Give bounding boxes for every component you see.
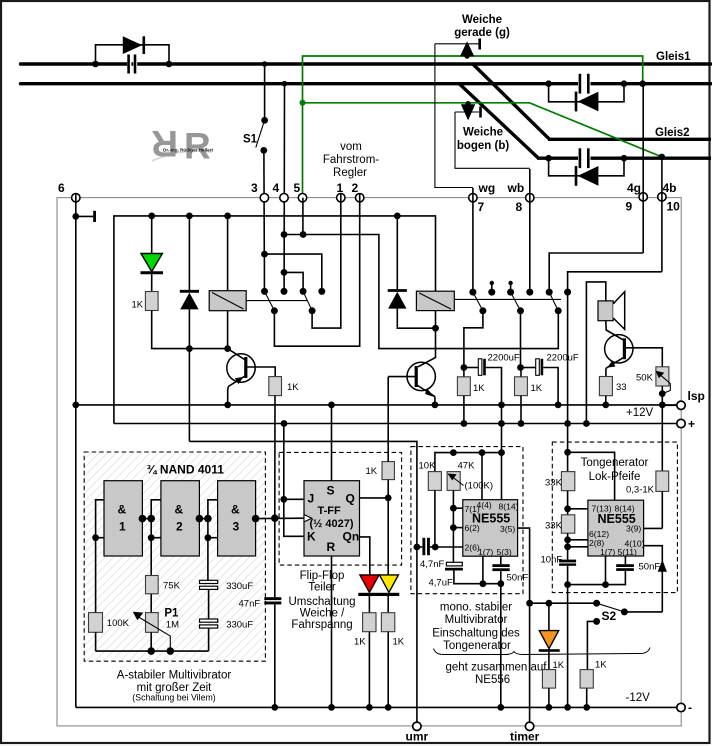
bus B +12V bbox=[114, 423, 677, 425]
svg-text:1K: 1K bbox=[393, 637, 405, 648]
pin 3(9) output wire bbox=[644, 527, 663, 529]
svg-text:S2: S2 bbox=[602, 609, 617, 623]
turnout diagonal to Gleis2 bottom bbox=[460, 84, 539, 158]
bus A (lsp line) bbox=[76, 404, 677, 406]
relay2 contact b1 bbox=[469, 289, 476, 296]
svg-text:33: 33 bbox=[616, 382, 627, 393]
junction node4 lower bbox=[281, 269, 288, 276]
brace bbox=[434, 648, 651, 655]
relay2 lever 1 bbox=[473, 292, 483, 311]
rail Gleis1 top bbox=[21, 62, 712, 65]
relay1 contact a2 bbox=[281, 288, 288, 295]
wire node 1 to relay1 lever2 bbox=[312, 194, 341, 329]
capacitor 47nF bbox=[239, 597, 282, 609]
Qn output wire to red LED bbox=[360, 537, 370, 575]
svg-text:umr: umr bbox=[406, 730, 429, 744]
terminal umr bbox=[416, 547, 418, 722]
svg-text:+: + bbox=[688, 417, 695, 431]
wire node 2 to relay1 lever1 bbox=[274, 194, 359, 347]
T-FF 4027 block bbox=[304, 481, 360, 556]
svg-text:NE556: NE556 bbox=[475, 674, 510, 686]
Q1 base wire to 1K bbox=[246, 367, 275, 377]
potentiometer P1 1M bbox=[146, 613, 159, 633]
capacitor 4,7uF bbox=[429, 562, 463, 588]
outer circuit box (gray) bbox=[57, 198, 681, 726]
svg-text:3: 3 bbox=[251, 181, 258, 195]
svg-text:47K: 47K bbox=[458, 461, 476, 472]
svg-text:9: 9 bbox=[626, 200, 633, 214]
S pin wire bbox=[331, 405, 333, 481]
capacitor 50nF (tone) bbox=[616, 562, 660, 573]
svg-text:1M: 1M bbox=[166, 620, 179, 631]
relay1 contact a3 bbox=[300, 288, 307, 295]
relay K2 coil bbox=[416, 291, 454, 310]
svg-text:2200uF: 2200uF bbox=[488, 353, 520, 364]
svg-text:3: 3 bbox=[233, 520, 240, 534]
wire bypass over top-rail capacitor bbox=[96, 45, 170, 64]
wire tone ground to -12V bus bbox=[567, 585, 569, 707]
svg-text:wg: wg bbox=[478, 181, 496, 195]
svg-text:10nF: 10nF bbox=[541, 555, 563, 566]
svg-text:timer: timer bbox=[510, 730, 540, 744]
wire mono output to S2 bbox=[530, 602, 597, 604]
wire contact b6 down to +12V bus bbox=[567, 292, 569, 424]
capacitor 4,7nF bbox=[414, 538, 445, 570]
resistor 10K bbox=[428, 472, 441, 491]
pin 2(6) wire bbox=[435, 546, 463, 548]
pin 7(13) wire bbox=[568, 508, 588, 510]
svg-text:(100K): (100K) bbox=[465, 481, 494, 492]
svg-text:Weichebogen (b): Weichebogen (b) bbox=[457, 127, 510, 153]
svg-text:&: & bbox=[118, 503, 127, 517]
potentiometer 50K bbox=[656, 367, 669, 386]
svg-text:4,7uF: 4,7uF bbox=[429, 578, 453, 589]
relay1 lever 2 bbox=[303, 291, 312, 310]
svg-text:5(3): 5(3) bbox=[497, 547, 512, 557]
svg-text:33K: 33K bbox=[545, 521, 563, 532]
capacitor 330uF (2) bbox=[200, 619, 254, 631]
svg-text:(½ 4027): (½ 4027) bbox=[310, 518, 354, 530]
NE555 (tone) block bbox=[588, 500, 644, 556]
Q2 base wire bbox=[388, 376, 416, 378]
svg-text:8(14): 8(14) bbox=[499, 502, 519, 512]
-12V bottom bus bbox=[76, 706, 677, 708]
svg-text:8: 8 bbox=[516, 200, 523, 214]
relay K1 coil bbox=[209, 291, 246, 311]
node 2 bbox=[356, 194, 364, 202]
svg-text:1K: 1K bbox=[366, 466, 378, 477]
svg-text:330uF: 330uF bbox=[226, 581, 253, 592]
relay2 contact b2 (stub) bbox=[488, 281, 495, 296]
svg-text:1K: 1K bbox=[473, 383, 485, 394]
svg-text:Gleis2: Gleis2 bbox=[655, 127, 690, 139]
svg-text:R: R bbox=[184, 126, 211, 167]
svg-text:1(7): 1(7) bbox=[600, 547, 615, 557]
svg-text:7: 7 bbox=[478, 200, 485, 214]
svg-text:75K: 75K bbox=[163, 581, 181, 592]
pin 4(10) wire with arrow from S2 bbox=[644, 546, 663, 612]
svg-text:50nF: 50nF bbox=[639, 562, 661, 573]
terminal + (+12V) bbox=[677, 419, 685, 427]
node 4g / 9 bbox=[639, 193, 647, 201]
svg-text:-12V: -12V bbox=[626, 692, 651, 704]
svg-text:330uF: 330uF bbox=[226, 620, 253, 631]
wire Q2-base / 1K / Q-output chain bbox=[387, 377, 389, 462]
wire +12V to speaker bbox=[586, 282, 605, 424]
+12V feed wire (top) bbox=[114, 216, 436, 424]
NAND gate 1 bbox=[104, 481, 142, 556]
svg-text:Dr.-Ing. Rüdiger Hellert: Dr.-Ing. Rüdiger Hellert bbox=[163, 148, 213, 153]
capacitor in Gleis1-bottom rail (right) bbox=[578, 74, 591, 94]
capacitor 330uF (1) bbox=[200, 580, 254, 592]
diode D-g (pointing left) bbox=[578, 92, 599, 112]
svg-text:mono. stabilerMultivibratorEin: mono. stabilerMultivibratorEinschaltung … bbox=[432, 602, 520, 653]
svg-text:&: & bbox=[231, 503, 240, 517]
NAND gate 2 bbox=[161, 481, 200, 556]
tone ground wire bbox=[568, 571, 626, 585]
svg-text:(Schaltung bei Vilem): (Schaltung bei Vilem) bbox=[132, 693, 216, 703]
pin 2(8) wire bbox=[568, 546, 588, 548]
relay1 contact a1 bbox=[261, 288, 268, 295]
clock input triangle bbox=[304, 515, 312, 522]
transistor Q3 (NPN) bbox=[605, 335, 633, 363]
Q output wire bbox=[360, 497, 389, 499]
svg-text:5: 5 bbox=[294, 181, 301, 195]
wire node 9 to relay2 contact b5 bbox=[549, 253, 643, 290]
+12V drop into box bbox=[567, 424, 569, 472]
switch S1 bbox=[264, 66, 266, 118]
relay2 lever 2 bbox=[511, 292, 521, 311]
feed wire inside box bbox=[435, 453, 502, 472]
shared cathode bar bbox=[358, 593, 399, 596]
gate2 output to gate3 inputs bbox=[196, 515, 204, 523]
rail Gleis1 bottom bbox=[21, 82, 712, 85]
resistor 1K (Q1 base) bbox=[269, 377, 282, 396]
wire speaker to Q3 collector bbox=[606, 321, 623, 340]
wire rail to node 4 bbox=[283, 85, 285, 291]
svg-text:0,3-1K: 0,3-1K bbox=[626, 485, 655, 496]
resistor 33K (1) bbox=[561, 472, 574, 491]
rail Gleis2 bottom bbox=[537, 156, 711, 159]
svg-text:50nF: 50nF bbox=[507, 573, 529, 584]
diode bypass under Gleis2-bottom rail bbox=[549, 158, 624, 176]
wire node 10 to relay2 contact b6 bbox=[568, 272, 662, 290]
pin 8(14) wire bbox=[501, 453, 503, 500]
relay1 contact a4 bbox=[318, 288, 325, 295]
svg-text:100K: 100K bbox=[107, 618, 130, 629]
node 6 stub terminal bar bbox=[72, 211, 94, 222]
svg-text:S: S bbox=[327, 484, 335, 498]
svg-text:1K: 1K bbox=[595, 660, 607, 671]
wire 1K down to NAND output / clock node bbox=[274, 396, 276, 519]
svg-text:10K: 10K bbox=[419, 461, 437, 472]
wire 4b rail to node 10 bbox=[661, 159, 663, 272]
orange LED bbox=[548, 603, 550, 630]
svg-text:P1: P1 bbox=[164, 608, 179, 620]
wire relay2 lever1 to cap node bbox=[464, 311, 483, 368]
svg-text:2: 2 bbox=[176, 520, 183, 534]
wire LED-1K to Q1 collector node bbox=[152, 311, 228, 349]
pin 4(4) wire bbox=[481, 453, 483, 500]
relay2 lever 3 bbox=[549, 292, 558, 311]
wire from gerade bar to node wg bbox=[435, 44, 473, 188]
pin 6(12) wire bbox=[568, 539, 588, 541]
svg-text:¾ NAND 4011: ¾ NAND 4011 bbox=[147, 463, 225, 477]
wire node wg down to contact b1 bbox=[472, 188, 474, 290]
terminal timer bbox=[525, 722, 533, 730]
diode D-top (bypass, pointing right) bbox=[123, 36, 143, 54]
svg-text:5(11): 5(11) bbox=[618, 547, 638, 557]
red LED bbox=[360, 575, 379, 593]
capacitor in Gleis2-bottom rail bbox=[578, 148, 591, 168]
NAND gate 3 bbox=[218, 481, 256, 556]
green wire: node 5 up and across to Gleis1 bottom rail bbox=[303, 56, 643, 199]
junction green/rail 4g bbox=[639, 80, 646, 87]
wire node3 branch to contact a4 bbox=[265, 254, 322, 290]
svg-text:3(9): 3(9) bbox=[626, 524, 641, 534]
NE555 (mono) block bbox=[463, 500, 518, 557]
ground wire down to -12V bbox=[500, 584, 502, 708]
Q3 base wire to 50K bbox=[624, 348, 662, 367]
node wg / 7 bbox=[469, 194, 477, 202]
svg-text:4(4): 4(4) bbox=[477, 500, 492, 510]
svg-text:geht zusammen auf: geht zusammen auf bbox=[446, 662, 548, 674]
turnout coil symbol "gerade": arrow up onto bar bbox=[435, 39, 480, 59]
node wb / 8 bbox=[526, 194, 534, 202]
svg-text:K: K bbox=[307, 530, 316, 544]
wire node 6 down to bottom bbox=[75, 194, 77, 707]
svg-text:S1: S1 bbox=[243, 134, 258, 146]
junction node3 branch bbox=[261, 251, 268, 258]
Q3 emitter resistor 33 bbox=[605, 368, 607, 376]
terminal lsp bbox=[662, 404, 677, 406]
pin 1(7) wire bbox=[482, 556, 484, 584]
svg-text:Qn: Qn bbox=[343, 530, 360, 544]
R pin wire to -12V bbox=[331, 556, 333, 707]
gate1 input tie bbox=[96, 500, 104, 613]
resistor 1K (green LED) bbox=[145, 292, 158, 311]
svg-text:6(2): 6(2) bbox=[465, 523, 480, 533]
svg-text:33K: 33K bbox=[545, 478, 563, 489]
wire node wb down to contact b4 bbox=[529, 169, 531, 290]
junction on rail1 right bbox=[166, 61, 173, 68]
feed to pin 8(14) bbox=[568, 452, 615, 500]
svg-text:6: 6 bbox=[58, 181, 65, 195]
svg-text:1K: 1K bbox=[287, 382, 299, 393]
svg-text:4: 4 bbox=[273, 181, 280, 195]
pin 5(3) wire + 50nF bbox=[500, 556, 502, 564]
junction green/rail 4b bbox=[659, 154, 666, 161]
node 4b / 10 bbox=[658, 193, 666, 201]
relay2 contact b3 (stub) bbox=[507, 281, 514, 296]
resistor 1K (S2) bbox=[580, 670, 593, 689]
resistor 1K (under cap1) bbox=[457, 368, 485, 424]
svg-text:2: 2 bbox=[352, 181, 359, 195]
resistor 0,3-1K bbox=[656, 471, 669, 491]
svg-text:&: & bbox=[175, 503, 184, 517]
node 4 bbox=[280, 194, 288, 202]
rail Gleis2 top bbox=[548, 138, 711, 141]
svg-text:1K: 1K bbox=[553, 660, 565, 671]
svg-text:+12V: +12V bbox=[626, 407, 654, 419]
svg-text:47nF: 47nF bbox=[239, 599, 261, 610]
diode D-b (pointing left) bbox=[578, 166, 599, 186]
svg-text:1: 1 bbox=[337, 181, 344, 195]
svg-text:Weichegerade (g): Weichegerade (g) bbox=[454, 14, 510, 39]
diode D2 (relay2) bbox=[396, 216, 398, 291]
node 5 bbox=[298, 194, 306, 202]
turnout coil symbol "bogen": arrow down onto bar bbox=[455, 101, 481, 120]
watermark logo bbox=[151, 123, 213, 167]
svg-text:1(7): 1(7) bbox=[478, 547, 493, 557]
relay1 mechanical link bbox=[246, 300, 307, 302]
resistor 75K bbox=[146, 576, 159, 594]
resistor 33K (2) bbox=[561, 515, 574, 533]
junction feed/green LED bbox=[148, 213, 155, 220]
wire diode1 to umr (link) bbox=[189, 441, 417, 547]
yellow LED bbox=[380, 575, 399, 593]
terminal - (-12V) bbox=[677, 703, 685, 711]
capacitor 2200uF (2) bbox=[517, 353, 579, 405]
diode D1 (relay1) bbox=[188, 216, 190, 292]
junction on rail1 left bbox=[92, 61, 99, 68]
svg-text:R: R bbox=[151, 123, 178, 164]
svg-text:R: R bbox=[327, 540, 336, 554]
relay1 lever 1 bbox=[265, 291, 275, 310]
green LED bbox=[151, 216, 153, 254]
svg-text:Q: Q bbox=[346, 492, 355, 506]
svg-text:-: - bbox=[688, 701, 692, 715]
svg-text:1: 1 bbox=[119, 520, 126, 534]
green junction node bbox=[300, 100, 306, 106]
resistor 1K (orange LED) bbox=[542, 670, 555, 689]
diode bypass under Gleis1-bottom rail bbox=[549, 84, 624, 102]
switch S2 bbox=[593, 600, 600, 607]
transistor Q1 (PNP) bbox=[227, 354, 255, 382]
wire coil bottom to Q2 collector bbox=[418, 328, 436, 367]
svg-text:T-FF: T-FF bbox=[318, 505, 341, 517]
svg-text:4,7nF: 4,7nF bbox=[420, 559, 444, 570]
capacitor in Gleis1 top rail bbox=[127, 54, 137, 74]
relay2 contact b6 bbox=[564, 289, 571, 296]
svg-text:J: J bbox=[308, 492, 315, 506]
svg-text:10: 10 bbox=[667, 200, 681, 214]
relay2 mechanical link bbox=[454, 298, 561, 300]
relay2 contact b4 bbox=[526, 289, 533, 296]
turnout diagonal to Gleis2 top bbox=[473, 64, 550, 139]
svg-text:2200uF: 2200uF bbox=[547, 353, 579, 364]
svg-text:4g: 4g bbox=[627, 181, 641, 195]
resistor 1K (under cap2) bbox=[515, 368, 543, 424]
capacitor 2200uF (1) bbox=[461, 353, 520, 453]
wire pot node down through +12V bus to tone generator bbox=[661, 405, 663, 471]
pin 6(2) wire bbox=[453, 527, 462, 529]
svg-text:lsp: lsp bbox=[688, 389, 705, 403]
wire node 3 down bbox=[263, 254, 265, 291]
long wire node4/5 net to relay2 lever3 bbox=[284, 235, 558, 349]
junction node4 upper bbox=[281, 231, 288, 238]
svg-text:1K: 1K bbox=[132, 300, 144, 311]
wire 4g rail to node 9 bbox=[642, 86, 644, 254]
astable bottom wire bbox=[96, 650, 209, 652]
speaker LS1 bbox=[598, 301, 613, 321]
potentiometer 47K (100K) bbox=[447, 472, 460, 491]
node 3 bbox=[260, 194, 268, 202]
pin 3(5) output wire bbox=[518, 528, 530, 722]
resistor 1K (red) bbox=[363, 613, 376, 632]
gate3 output node bbox=[252, 515, 260, 523]
gate1 output to gate2 inputs bbox=[139, 515, 147, 523]
svg-text:1K: 1K bbox=[531, 383, 543, 394]
svg-text:50K: 50K bbox=[636, 373, 654, 384]
capacitor 10nF bbox=[541, 555, 577, 566]
svg-text:4b: 4b bbox=[663, 181, 677, 195]
svg-text:3(5): 3(5) bbox=[500, 524, 515, 534]
wire node4 branch to contact a3 bbox=[284, 272, 303, 290]
node 6 bbox=[72, 194, 80, 202]
resistor 1K (yellow) bbox=[381, 613, 394, 632]
svg-text:wb: wb bbox=[507, 181, 525, 195]
wire relay2 lever2 to cap2 node bbox=[520, 311, 522, 368]
pin 7(1) wire bbox=[453, 507, 462, 509]
transistor Q2 (NPN) bbox=[407, 362, 435, 390]
svg-text:1K: 1K bbox=[354, 637, 366, 648]
J/K tie to +12V bbox=[284, 424, 304, 537]
1K pull resistor (Q output) bbox=[382, 462, 394, 480]
green wire: branch to turnout curve rail bbox=[303, 103, 662, 157]
pin 1(7) wire bbox=[605, 556, 607, 585]
node 1 bbox=[337, 194, 345, 202]
wire node5 tie bbox=[302, 198, 304, 235]
relay2 contact b5 bbox=[546, 289, 553, 296]
wire from bogen bar to node wb bbox=[455, 112, 530, 168]
svg-text:Gleis1: Gleis1 bbox=[656, 51, 691, 63]
resistor 100K bbox=[89, 613, 103, 633]
